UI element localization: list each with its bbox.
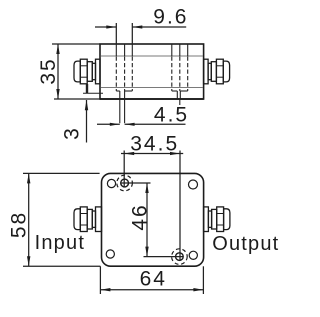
svg-text:34.5: 34.5 [130,133,179,156]
svg-text:Input: Input [35,232,85,254]
svg-text:58: 58 [8,211,31,238]
svg-text:3: 3 [61,126,84,140]
svg-text:9.6: 9.6 [153,5,188,28]
svg-text:4.5: 4.5 [154,103,189,126]
svg-text:35: 35 [37,57,60,84]
svg-text:Output: Output [212,233,279,255]
svg-text:64: 64 [140,268,167,291]
svg-text:46: 46 [129,203,152,230]
